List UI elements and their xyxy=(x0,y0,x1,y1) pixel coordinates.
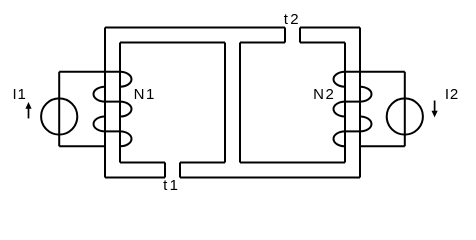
wire left source loop left edge xyxy=(58,72,60,147)
current source I2 xyxy=(387,98,423,134)
core outer top edge right of t2 gap xyxy=(300,27,360,29)
label t1 xyxy=(163,178,180,193)
current source I1 xyxy=(41,98,77,134)
label t2 xyxy=(284,12,301,27)
right window bottom edge xyxy=(240,162,345,164)
left window right edge (center leg left) xyxy=(224,43,226,163)
core outer left leg xyxy=(104,28,106,178)
right window top edge right of t2 gap xyxy=(300,42,345,44)
t1 right cut end xyxy=(179,163,181,178)
I2 current direction arrow (down) xyxy=(432,101,438,118)
winding N2 entry wire and scallop turns around right core leg xyxy=(334,72,405,147)
winding N1 entry wire and scallop turns around left core leg xyxy=(59,72,131,147)
core outer top edge left of t2 gap xyxy=(105,27,285,29)
I1 current direction arrow (up) xyxy=(25,102,31,118)
t2 left cut end xyxy=(284,28,286,43)
label I1 xyxy=(13,87,27,102)
core outer bottom edge left of t1 gap xyxy=(105,177,165,179)
wire right source loop right edge xyxy=(404,72,406,147)
label I2 xyxy=(445,87,459,102)
left window left edge xyxy=(119,43,121,163)
left window bottom edge left of t1 gap xyxy=(120,162,165,164)
right window left edge (center leg right) xyxy=(239,43,241,163)
label N1 xyxy=(134,87,156,102)
core outer bottom edge right of t1 gap xyxy=(180,177,360,179)
right window top edge left of t2 gap xyxy=(240,42,285,44)
left window bottom edge right of t1 gap xyxy=(180,162,225,164)
left window top edge xyxy=(120,42,225,44)
core outer right leg xyxy=(359,28,361,178)
t2 right cut end xyxy=(299,28,301,43)
t1 left cut end xyxy=(164,163,166,178)
right window right edge xyxy=(344,43,346,163)
label N2 xyxy=(313,87,335,102)
